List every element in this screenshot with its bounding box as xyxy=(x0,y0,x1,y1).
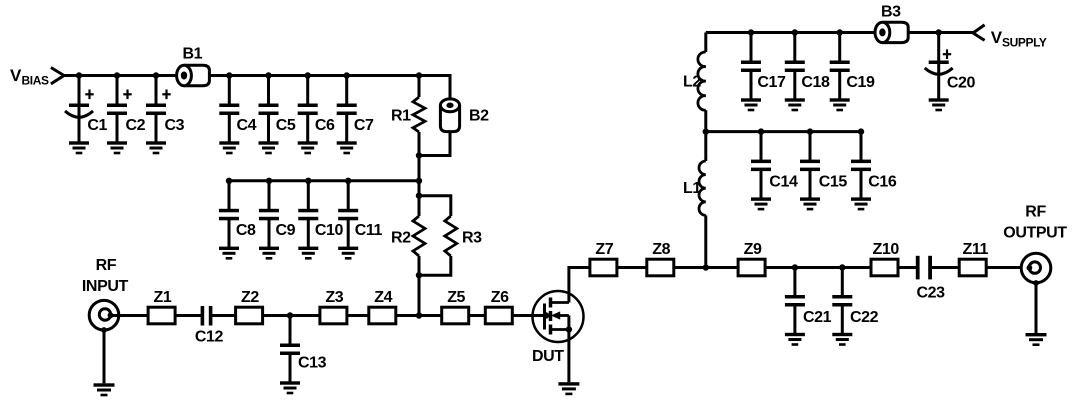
ground DUT source xyxy=(558,382,579,395)
wire Z6 to DUT gate xyxy=(512,314,546,317)
wire supply rail (top right) xyxy=(706,31,876,34)
node junction C5 xyxy=(265,72,271,78)
svg-text:V: V xyxy=(10,66,22,85)
wire Z8 to Z9 xyxy=(674,266,738,269)
wire Z1 to C12 xyxy=(175,314,201,317)
capacitor C17 xyxy=(741,33,786,112)
svg-text:C7: C7 xyxy=(354,117,374,134)
node junction rail2/R2 xyxy=(416,178,422,184)
resistor R3 xyxy=(419,196,482,276)
impedance Z5 xyxy=(442,289,469,324)
capacitor C18 xyxy=(785,33,830,112)
svg-text:C17: C17 xyxy=(757,74,786,91)
wire R2 bottom to RF line xyxy=(418,275,421,315)
node junction C18 xyxy=(792,29,798,35)
node junction C8 xyxy=(226,178,232,184)
impedance Z8 xyxy=(647,241,674,276)
node junction R1/B2 bottom xyxy=(416,152,422,158)
svg-text:C4: C4 xyxy=(237,117,257,134)
wire Z2 to Z3 xyxy=(263,314,320,317)
capacitor C1 (electrolytic) xyxy=(65,76,108,155)
node junction C14 xyxy=(758,128,764,134)
impedance Z7 xyxy=(590,241,617,276)
connector RF INPUT xyxy=(89,300,119,332)
wire RF INPUT shell to ground xyxy=(103,330,106,383)
svg-text:Z9: Z9 xyxy=(744,241,762,258)
svg-text:L2: L2 xyxy=(683,74,701,91)
svg-text:B1: B1 xyxy=(183,46,203,63)
node junction C20 xyxy=(936,29,942,35)
capacitor C14 xyxy=(751,132,798,211)
wire R1 bottom down to rail2 xyxy=(418,156,421,197)
svg-text:SUPPLY: SUPPLY xyxy=(1002,36,1047,50)
ferrite bead B1 xyxy=(177,46,210,86)
svg-text:C21: C21 xyxy=(803,309,832,326)
node V_SUPPLY label xyxy=(991,28,1047,50)
capacitor C7 xyxy=(337,76,374,155)
svg-text:C15: C15 xyxy=(819,174,848,191)
node junction C22 xyxy=(839,264,845,270)
capacitor C8 xyxy=(219,181,256,260)
inductor L1 xyxy=(683,132,706,268)
svg-text:BIAS: BIAS xyxy=(22,74,49,88)
node junction C6 xyxy=(305,72,311,78)
impedance Z11 xyxy=(959,241,988,276)
svg-text:OUTPUT: OUTPUT xyxy=(1003,225,1067,242)
wire V_BIAS rail to B1 xyxy=(63,74,178,77)
wire Z10 to C23 xyxy=(898,266,916,269)
transistor DUT (MOSFET) xyxy=(532,291,584,365)
ground RF INPUT xyxy=(94,383,115,396)
svg-text:R2: R2 xyxy=(391,230,411,247)
capacitor C19 xyxy=(830,33,875,112)
svg-text:R3: R3 xyxy=(462,230,482,247)
capacitor C16 xyxy=(851,132,897,211)
node junction C4 xyxy=(226,72,232,78)
node junction R3 branch top xyxy=(416,193,422,199)
svg-text:Z6: Z6 xyxy=(491,289,509,306)
capacitor C3 xyxy=(146,76,185,155)
node junction C13 xyxy=(287,312,293,318)
node junction C2 xyxy=(114,72,120,78)
svg-text:C23: C23 xyxy=(917,285,946,302)
svg-text:Z2: Z2 xyxy=(241,289,259,306)
wire C23 to Z11 xyxy=(931,266,959,269)
node junction C3 xyxy=(153,72,159,78)
node junction L1 bottom xyxy=(703,264,709,270)
svg-text:C6: C6 xyxy=(315,117,335,134)
wire Z9 to Z10 xyxy=(765,266,871,269)
capacitor C13 xyxy=(280,316,327,395)
svg-text:C16: C16 xyxy=(868,174,897,191)
impedance Z10 xyxy=(871,241,899,276)
wire C12 to Z2 xyxy=(212,314,236,317)
svg-text:C5: C5 xyxy=(276,117,296,134)
svg-text:Z3: Z3 xyxy=(325,289,343,306)
capacitor C5 xyxy=(259,76,296,155)
impedance Z2 xyxy=(236,289,263,324)
svg-text:C11: C11 xyxy=(355,222,383,239)
resistor R1 xyxy=(391,76,425,156)
svg-text:C20: C20 xyxy=(947,75,976,92)
svg-text:C13: C13 xyxy=(298,355,327,372)
capacitor C4 xyxy=(219,76,256,155)
inductor L2 xyxy=(683,33,706,132)
wire rail2-right (C14-C16) xyxy=(706,130,861,133)
capacitor C2 xyxy=(107,76,146,155)
svg-text:C8: C8 xyxy=(236,222,256,239)
svg-text:RF: RF xyxy=(1025,204,1046,221)
svg-text:L1: L1 xyxy=(683,180,701,197)
capacitor C6 xyxy=(298,76,335,155)
svg-text:Z10: Z10 xyxy=(873,241,900,258)
node junction L1/L2 xyxy=(703,128,709,134)
wire RF INPUT to Z1 xyxy=(111,314,149,317)
ground RF OUTPUT xyxy=(1026,333,1047,346)
ferrite bead B3 xyxy=(875,4,908,43)
wire B3 to V_SUPPLY arrow xyxy=(908,31,973,34)
node junction C19 xyxy=(837,29,843,35)
node junction C9 xyxy=(266,178,272,184)
svg-text:B3: B3 xyxy=(881,4,901,21)
wire Z5 to Z6 xyxy=(469,314,486,317)
V_SUPPLY input terminal arrow xyxy=(973,25,985,41)
node junction R2/RF line xyxy=(416,312,422,318)
capacitor C22 xyxy=(832,267,878,346)
node RF INPUT label xyxy=(82,257,129,295)
node junction C21 xyxy=(792,264,798,270)
svg-text:C10: C10 xyxy=(315,222,344,239)
wire corner to B2 top xyxy=(449,74,452,99)
node junction R1 top xyxy=(416,72,422,78)
capacitor C20 (electrolytic) xyxy=(925,33,976,112)
svg-text:C18: C18 xyxy=(801,74,830,91)
svg-text:Z8: Z8 xyxy=(652,241,670,258)
node RF OUTPUT label xyxy=(1003,204,1067,242)
capacitor C23 (series) xyxy=(916,256,945,302)
svg-text:B2: B2 xyxy=(469,108,489,125)
svg-text:C12: C12 xyxy=(195,329,224,346)
impedance Z9 xyxy=(738,241,765,276)
impedance Z3 xyxy=(320,289,347,324)
node junction R2/R3 bottom xyxy=(416,272,422,278)
svg-text:C9: C9 xyxy=(276,222,296,239)
svg-text:C1: C1 xyxy=(87,117,107,134)
svg-text:C22: C22 xyxy=(850,309,879,326)
svg-text:Z11: Z11 xyxy=(963,241,989,258)
node junction C1 xyxy=(76,72,82,78)
wire B1 to corner above B2 xyxy=(209,74,450,77)
wire DUT source to ground xyxy=(567,316,570,383)
impedance Z4 xyxy=(369,289,396,324)
connector RF OUTPUT xyxy=(1021,253,1051,286)
node junction C17 xyxy=(748,29,754,35)
svg-text:R1: R1 xyxy=(391,108,411,125)
wire Z11 to RF OUTPUT xyxy=(986,266,1029,269)
node junction C10 xyxy=(305,178,311,184)
wire DUT drain up to RF line xyxy=(569,268,590,303)
svg-text:Z7: Z7 xyxy=(595,241,613,258)
svg-text:V: V xyxy=(991,28,1003,47)
node junction C7 xyxy=(344,72,350,78)
ferrite bead B2 (vertical) xyxy=(440,99,489,132)
capacitor C12 (series) xyxy=(195,306,224,346)
capacitor C15 xyxy=(800,132,847,211)
wire bypass rail2 (C8-C11) xyxy=(229,179,419,182)
svg-text:DUT: DUT xyxy=(532,348,564,365)
capacitor C21 xyxy=(785,267,832,346)
impedance Z1 xyxy=(148,289,175,324)
wire Z4 to Z5 xyxy=(396,314,442,317)
node V_BIAS label xyxy=(10,66,49,88)
capacitor C10 xyxy=(298,181,343,260)
impedance Z6 xyxy=(485,289,512,324)
V_BIAS input terminal arrow xyxy=(51,68,64,84)
svg-text:RF: RF xyxy=(96,257,117,274)
capacitor C9 xyxy=(259,181,296,260)
svg-text:Z1: Z1 xyxy=(154,289,172,306)
node junction C16 xyxy=(858,128,864,134)
wire RF OUTPUT shell to ground xyxy=(1035,283,1038,333)
svg-text:C3: C3 xyxy=(165,117,185,134)
resistor R2 xyxy=(391,196,425,276)
svg-text:Z4: Z4 xyxy=(374,289,392,306)
node junction C11 xyxy=(345,178,351,184)
wire Z3 to Z4 xyxy=(347,314,369,317)
node junction C15 xyxy=(807,128,813,134)
svg-text:Z5: Z5 xyxy=(447,289,465,306)
wire B2 bottom to R1 bottom xyxy=(419,132,450,156)
svg-text:C19: C19 xyxy=(846,74,875,91)
wire Z7 to Z8 xyxy=(617,266,647,269)
svg-text:C14: C14 xyxy=(769,174,798,191)
svg-text:C2: C2 xyxy=(126,117,146,134)
svg-text:INPUT: INPUT xyxy=(82,278,129,295)
capacitor C11 xyxy=(338,181,382,260)
